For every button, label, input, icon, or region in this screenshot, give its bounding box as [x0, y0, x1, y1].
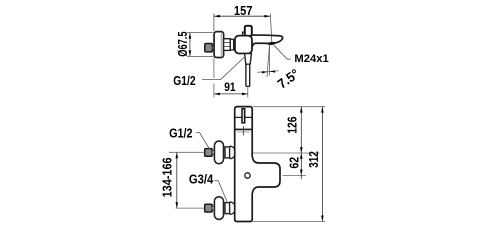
upper wall nut (front view) — [205, 149, 213, 157]
arrow right of angle arc — [270, 70, 276, 72]
escutcheon inner edge line — [220, 33, 222, 56]
arrow left of 157 — [214, 15, 220, 18]
spout (top view) — [251, 35, 283, 47]
nut stem — [212, 46, 214, 49]
arrow bottom of 134-166 — [176, 202, 179, 208]
arrow right of 91 — [242, 93, 248, 96]
wire: top extension line of dia 67.5 — [187, 32, 214, 34]
connector ring — [230, 39, 233, 50]
leader of G1/2 (top view) — [202, 57, 245, 80]
wire: extension line at spout centre (62) — [283, 174, 307, 176]
dimension 91 line — [214, 93, 248, 95]
arrow top of 312 — [321, 107, 324, 113]
diverter knob circle — [245, 173, 250, 178]
svg-text:M24x1: M24x1 — [294, 53, 328, 65]
svg-text:G1/2: G1/2 — [169, 127, 193, 141]
lower union nut — [225, 203, 230, 214]
shower outlet collar — [245, 54, 252, 65]
aerator lens (dark) — [267, 42, 276, 46]
arrows at shared point 126/62 — [300, 147, 303, 153]
svg-text:134-166: 134-166 — [160, 157, 174, 197]
wire: bottom extension line (312) — [253, 220, 325, 222]
mixer body (front view) with spout protrusion — [235, 107, 280, 222]
union nut rib lines — [224, 42, 230, 44]
wire: slanted 7.5 deg line — [267, 44, 270, 77]
svg-text:G1/2: G1/2 — [173, 74, 195, 88]
wire: right extension line of 157 (down to aerator) — [270, 14, 272, 44]
upper nut stem — [212, 151, 214, 154]
handle lever hook — [243, 32, 246, 36]
wire: extension line lower inlet centre (left, 134-166) — [176, 207, 205, 209]
handle knob (top view) — [245, 26, 252, 36]
svg-text:62: 62 — [288, 157, 302, 169]
angle arc 7.5 deg — [257, 71, 278, 73]
svg-text:312: 312 — [307, 151, 321, 168]
leader of M24x1 — [274, 45, 291, 59]
shower outlet pipe — [246, 64, 250, 86]
upper flange disc — [214, 141, 223, 164]
dimension 134-166 line — [176, 153, 178, 208]
wire: top extension line (312/126) — [253, 106, 325, 108]
svg-text:G3/4: G3/4 — [189, 173, 213, 187]
dimension 126/62 line — [300, 107, 302, 179]
dimension dia 67.5 line — [189, 33, 191, 56]
wire: extension line upper inlet centre (left, 134-166) — [169, 151, 205, 153]
centre mark horizontal dash — [237, 131, 250, 133]
dimension 157 line — [214, 15, 270, 17]
wall nut (top view) — [205, 44, 213, 52]
mixer body (top view) — [235, 36, 252, 54]
escutcheon flange (top view) — [214, 32, 224, 58]
centre mark vertical tick — [242, 126, 244, 135]
arrow bottom of 67.5 — [189, 50, 192, 56]
leader of G1/2 (front view) — [196, 133, 210, 150]
arrow left of 91 — [214, 93, 220, 96]
lower wall nut (front view) — [205, 204, 213, 212]
svg-text:157: 157 — [234, 3, 253, 18]
svg-text:Ø67.5: Ø67.5 — [175, 31, 190, 56]
wire: wall line below escutcheon — [213, 58, 215, 78]
dimension 312 line — [321, 107, 323, 221]
body upper seam line — [235, 116, 253, 118]
svg-text:91: 91 — [224, 80, 236, 94]
union nut between escutcheon and body — [224, 39, 231, 51]
wire: middle extension line at inlet centre (126/62) — [253, 152, 320, 154]
leader of G3/4 — [215, 181, 228, 202]
wire: right extension of 91 below pipe — [247, 87, 249, 97]
lower flange disc — [214, 197, 223, 220]
arrow right of 157 — [264, 15, 270, 18]
upper elbow bulge — [230, 146, 236, 159]
arrow top of 126 — [300, 107, 303, 113]
arrow bottom of 62 — [300, 170, 303, 176]
arrow left of angle arc — [262, 71, 268, 73]
lower nut stem — [212, 206, 214, 209]
body joint line — [235, 128, 253, 130]
wire: vertical reference line for 7.5 deg — [269, 44, 271, 75]
wire: left extension line of 157 (wall surface, above escutcheon) — [213, 14, 215, 32]
handle lever slot (front view) — [242, 109, 245, 123]
upper union nut — [225, 147, 230, 158]
arrow top of 134-166 — [176, 152, 179, 158]
svg-text:126: 126 — [285, 117, 299, 134]
arrow bottom of 312 — [321, 216, 324, 222]
wire: bottom extension line of dia 67.5 — [187, 55, 214, 57]
lower elbow bulge — [230, 202, 236, 215]
arrow top of 67.5 — [189, 33, 192, 39]
